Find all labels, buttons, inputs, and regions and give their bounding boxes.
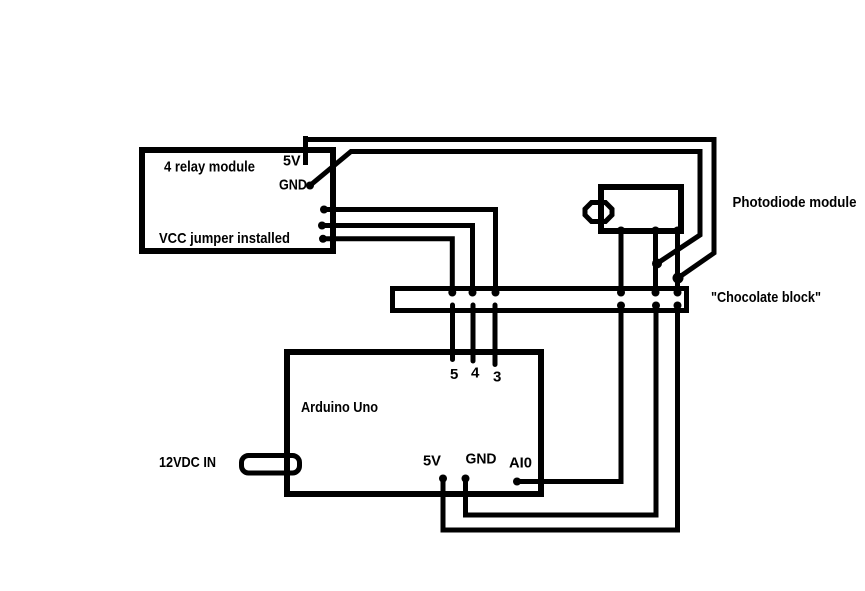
- svg-text:AI0: AI0: [509, 455, 532, 472]
- svg-text:GND: GND: [466, 451, 497, 468]
- pin label AI0: [509, 455, 532, 472]
- label: Photodiode module: [733, 194, 857, 211]
- wire: relay IN2 to chocolate block: [322, 226, 477, 297]
- pin label 5V (Arduino): [423, 453, 441, 470]
- wire: photodiode pin 1 down to chocolate block: [617, 231, 625, 297]
- node: relay IN1 pin dot: [320, 206, 328, 214]
- svg-text:4 relay module: 4 relay module: [164, 159, 255, 176]
- node: block lower terminal dot (AI0 wire): [617, 302, 625, 310]
- label: "Chocolate block": [711, 289, 821, 306]
- node: relay IN2 pin dot: [318, 222, 326, 230]
- label: 4 relay module: [164, 159, 255, 176]
- svg-text:4: 4: [471, 365, 480, 382]
- chocolate block terminal strip: [393, 289, 687, 311]
- node: block lower terminal dot (GND wire): [652, 302, 660, 310]
- pin label 5: [450, 366, 458, 383]
- wire: photodiode pin 3 down to chocolate block: [674, 231, 682, 297]
- svg-text:VCC jumper installed: VCC jumper installed: [159, 230, 290, 247]
- svg-text:GND: GND: [279, 177, 307, 194]
- junction dot: GND rail joins photodiode middle wire: [652, 259, 662, 269]
- svg-text:5V: 5V: [423, 453, 441, 470]
- wire: chocolate block down to Arduino pin 4: [471, 305, 476, 361]
- pin label 5V (relay): [283, 153, 301, 170]
- wire: relay 5V top rail to right-side drop: [303, 140, 714, 279]
- 12VDC barrel connector J1: [242, 456, 300, 474]
- label: Arduino Uno: [301, 399, 378, 416]
- node: relay IN3 pin dot: [319, 235, 327, 243]
- photodiode lens (hexagon): [585, 203, 612, 222]
- node: photodiode pin 1 dot: [617, 227, 625, 235]
- wire: chocolate block to Arduino AI0: [513, 306, 621, 486]
- svg-text:3: 3: [493, 369, 501, 386]
- label: VCC jumper installed: [159, 230, 290, 247]
- photodiode module box U2: [601, 187, 681, 231]
- pin label 4: [471, 365, 480, 382]
- node: photodiode pin 2 dot: [652, 227, 660, 235]
- Arduino Uno box U3: [287, 352, 541, 494]
- svg-text:5: 5: [450, 366, 458, 383]
- node: block lower terminal dot (5V wire): [674, 302, 682, 310]
- svg-text:Arduino Uno: Arduino Uno: [301, 399, 378, 416]
- pin label 3: [493, 369, 501, 386]
- wire: chocolate block down to Arduino pin 3: [493, 305, 498, 365]
- wire: chocolate block to Arduino 5V: [439, 306, 678, 531]
- node: photodiode pin 3 dot: [674, 227, 682, 235]
- wire: relay IN1 to chocolate block: [324, 210, 500, 297]
- svg-text:Photodiode module: Photodiode module: [733, 194, 857, 211]
- svg-text:5V: 5V: [283, 153, 301, 170]
- wire: photodiode pin 2 down to chocolate block: [652, 231, 660, 297]
- junction dot: 5V rail joins photodiode right wire: [673, 273, 684, 284]
- pin label GND (relay): [279, 177, 307, 194]
- pin label GND (Arduino): [466, 451, 497, 468]
- svg-text:"Chocolate block": "Chocolate block": [711, 289, 821, 306]
- wire: relay IN3 to chocolate block: [323, 239, 456, 297]
- 4 relay module box U1: [142, 150, 333, 251]
- relay 5V pin stub: [303, 136, 308, 165]
- svg-text:12VDC IN: 12VDC IN: [159, 454, 216, 471]
- node: relay GND pin dot: [306, 182, 314, 190]
- label: 12VDC IN: [159, 454, 216, 471]
- wire: relay GND diagonal + top rail to right-side drop: [310, 152, 700, 264]
- wire: chocolate block to Arduino GND: [462, 306, 657, 516]
- wire: chocolate block down to Arduino pin 5: [450, 305, 455, 360]
